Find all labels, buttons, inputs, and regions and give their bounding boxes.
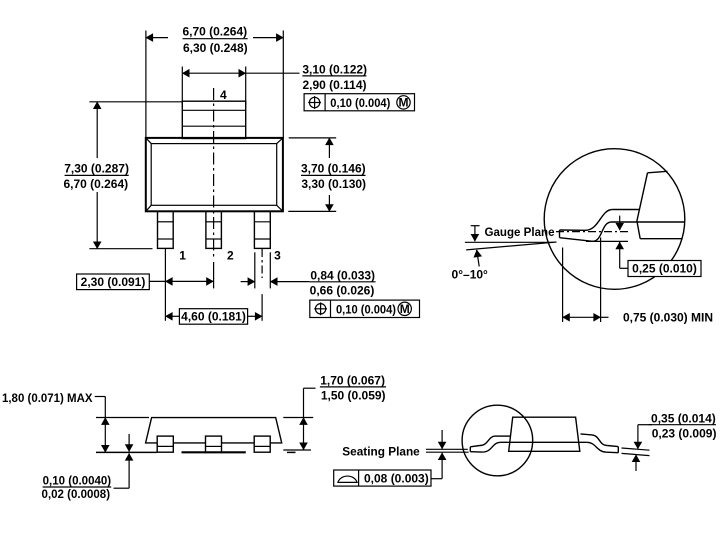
svg-text:Gauge Plane: Gauge Plane — [485, 225, 555, 239]
tab (pin 4) — [182, 101, 245, 138]
svg-text:0°–10°: 0°–10° — [452, 267, 488, 281]
svg-text:1,50 (0.059): 1,50 (0.059) — [321, 389, 386, 403]
pin3 edge extension lines — [254, 252, 256, 288]
body cross-section — [648, 171, 668, 173]
foot bottom extension line — [586, 240, 628, 242]
svg-text:6,70 (0.264): 6,70 (0.264) — [182, 25, 247, 39]
dim 6,70/6,30 ext lines — [145, 31, 147, 138]
svg-text:Seating Plane: Seating Plane — [342, 444, 420, 458]
dim 7,30/6,70 ext lines — [89, 101, 182, 103]
body — [509, 417, 580, 451]
0,10/0,02 arrows — [128, 434, 130, 452]
right lead top — [581, 434, 593, 435]
foot tip — [559, 230, 561, 238]
detail circle — [544, 149, 685, 290]
pin 3 — [254, 211, 270, 248]
angle up arrow leader — [477, 250, 480, 267]
svg-text:M: M — [400, 302, 410, 316]
0,23 up arrow — [635, 455, 637, 471]
seating double lines — [426, 448, 468, 450]
pin 2 — [206, 211, 222, 248]
detail circle — [462, 405, 533, 476]
body outline — [146, 418, 282, 443]
svg-text:6,30 (0.248): 6,30 (0.248) — [183, 41, 248, 55]
body outer outline — [146, 138, 283, 211]
svg-text:3,30 (0.130): 3,30 (0.130) — [301, 177, 366, 191]
pin 1 — [158, 211, 174, 248]
svg-text:1,80 (0.071) MAX: 1,80 (0.071) MAX — [2, 391, 93, 405]
thickness slant lines — [622, 448, 650, 450]
0,25 down arrow — [619, 216, 621, 231]
body inner outline — [151, 144, 277, 206]
0,25 up arrow and leader — [619, 242, 621, 268]
svg-text:3,70 (0.146): 3,70 (0.146) — [301, 162, 366, 176]
pin1 center extension line — [164, 248, 166, 320]
1,70 arrows — [303, 418, 305, 425]
0,75 ext lines — [562, 248, 564, 323]
pin2 center extension line — [213, 262, 215, 288]
wedge slant line — [466, 242, 556, 250]
gauge plane dash-dot line — [556, 231, 628, 233]
svg-text:0,10 (0.004): 0,10 (0.004) — [336, 302, 396, 316]
wedge horizontal line — [465, 241, 554, 243]
0,25 box — [628, 261, 701, 277]
svg-text:0,10 (0.004): 0,10 (0.004) — [330, 96, 390, 110]
dim 4,60 box and leaders — [165, 315, 179, 317]
svg-text:3,10 (0.122): 3,10 (0.122) — [302, 63, 367, 77]
seating line right — [287, 451, 296, 453]
svg-text:2: 2 — [227, 249, 234, 263]
1,70 bottom ext — [283, 449, 311, 451]
svg-text:1: 1 — [179, 249, 186, 263]
svg-text:0,35 (0.014): 0,35 (0.014) — [651, 411, 716, 425]
feature control frame 2 — [310, 300, 420, 317]
wedge down arrow — [474, 226, 476, 241]
svg-text:4,60 (0.181): 4,60 (0.181) — [181, 310, 246, 324]
foot top — [560, 229, 586, 231]
dim 6,70/6,30 dimension line — [146, 37, 168, 39]
svg-text:0,23 (0.009): 0,23 (0.009) — [652, 427, 717, 441]
dim 7,30/6,70 dimension line — [96, 102, 98, 158]
svg-text:0,84 (0.033): 0,84 (0.033) — [310, 268, 375, 282]
seating line left — [96, 451, 157, 453]
chamfer corner lines — [146, 138, 151, 144]
svg-text:0,66 (0.026): 0,66 (0.026) — [310, 284, 375, 298]
svg-text:2,30 (0.091): 2,30 (0.091) — [81, 275, 146, 289]
0,75 dim line — [563, 316, 601, 318]
1,80 arrows — [104, 418, 106, 425]
svg-text:4: 4 — [220, 88, 227, 102]
seat up arrow and leader — [441, 453, 443, 479]
lead 2 — [206, 436, 222, 452]
top ext left — [96, 417, 149, 419]
feature control frame 1 — [304, 94, 414, 111]
svg-text:6,70 (0.264): 6,70 (0.264) — [63, 177, 128, 191]
dim 3,70/3,30 dimension line — [328, 138, 330, 158]
svg-text:0,75 (0.030) MIN: 0,75 (0.030) MIN — [623, 310, 713, 324]
dim 0,84/0,66 arrows — [241, 281, 255, 283]
lead top line — [612, 209, 639, 211]
parting line — [500, 441, 586, 443]
dim 3,10/2,90 dimension line — [182, 72, 245, 74]
dim 2,30 box and leader — [77, 274, 150, 290]
dim 3,10/2,90 ext lines — [181, 67, 183, 105]
svg-text:M: M — [399, 96, 409, 110]
dim 3,70/3,30 ext lines — [289, 137, 337, 139]
top ext right — [283, 417, 313, 419]
svg-text:0,08 (0.003): 0,08 (0.003) — [364, 471, 429, 485]
left lead top — [496, 435, 511, 437]
center line — [213, 88, 215, 260]
svg-text:3: 3 — [274, 249, 281, 263]
seat down arrow — [441, 430, 443, 449]
0,08 feature frame — [334, 470, 431, 486]
foot bottom — [560, 238, 593, 242]
svg-text:0,02 (0.0008): 0,02 (0.0008) — [42, 487, 111, 501]
lead 1 — [157, 436, 173, 452]
svg-text:2,90 (0.114): 2,90 (0.114) — [302, 78, 366, 92]
lead bottom S-curve — [593, 222, 612, 241]
svg-text:0,10 (0.0040): 0,10 (0.0040) — [43, 474, 112, 488]
svg-text:1,70 (0.067): 1,70 (0.067) — [320, 373, 385, 387]
bottom pad thick line — [182, 451, 246, 453]
lead 3 — [254, 436, 270, 452]
0,35 leader and down arrow — [638, 424, 652, 426]
lead bottom line through body (parting line) — [612, 221, 685, 223]
lead top S-curve — [586, 210, 613, 231]
svg-text:0,25 (0.010): 0,25 (0.010) — [632, 262, 697, 276]
pin3 center extension line — [261, 249, 263, 278]
svg-text:7,30 (0.287): 7,30 (0.287) — [64, 162, 129, 176]
